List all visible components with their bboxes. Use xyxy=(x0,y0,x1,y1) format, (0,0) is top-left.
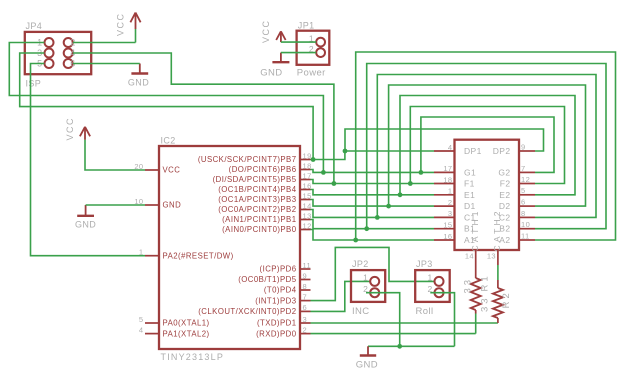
junction PB0/A loop tap xyxy=(353,238,358,243)
wire loop net D2 (tap to display pin) xyxy=(389,85,586,206)
resistor R2 (33) xyxy=(493,288,503,318)
resistor R1 (33) xyxy=(471,278,481,310)
svg-text:VCC: VCC xyxy=(163,166,181,175)
svg-text:TINY2313LP: TINY2313LP xyxy=(161,352,225,362)
wire loop net A2 (tap to display pin) xyxy=(356,52,616,240)
display DIS1 left pins (segment 1) xyxy=(434,143,482,245)
wire loop net E2 (tap to display pin) xyxy=(400,96,575,195)
ground symbol GND (IC2 pin10) xyxy=(75,205,96,230)
svg-text:18: 18 xyxy=(303,161,312,170)
svg-text:G2: G2 xyxy=(498,167,510,177)
svg-text:17: 17 xyxy=(443,164,452,173)
svg-text:10: 10 xyxy=(521,220,530,229)
wire net PB1/B (IC2 to display) xyxy=(311,220,435,229)
svg-text:(OC1B/PCINT4)PB4: (OC1B/PCINT4)PB4 xyxy=(218,185,296,194)
connector JP2 (INC button header) xyxy=(351,259,385,317)
connector JP1 (Power header) xyxy=(297,21,330,79)
junction MOSI/PB5 xyxy=(332,181,337,186)
display DIS1 right pins (segment 2) xyxy=(493,142,535,245)
svg-text:11: 11 xyxy=(521,231,530,240)
wire INT1 net (IC2 pin7 to JP3 pin1) xyxy=(311,247,435,300)
svg-text:15: 15 xyxy=(443,221,452,230)
svg-text:F2: F2 xyxy=(500,179,511,189)
wire loop net G2 (tap to display pin) xyxy=(421,117,554,172)
svg-text:DP1: DP1 xyxy=(464,146,482,156)
svg-text:(TXD)PD1: (TXD)PD1 xyxy=(257,319,297,328)
svg-text:12: 12 xyxy=(303,221,312,230)
wire net PB5/F (IC2 to display) xyxy=(311,180,435,184)
svg-text:CATH2: CATH2 xyxy=(492,208,502,251)
svg-text:VCC: VCC xyxy=(116,12,126,36)
wire JP3 pin2 to GND xyxy=(430,293,454,347)
wire RESET net (JP4 pin5 to IC2 pin1) xyxy=(31,64,146,256)
svg-text:GND: GND xyxy=(260,67,282,78)
svg-text:1: 1 xyxy=(139,248,144,257)
svg-text:(AIN0/PCINT0)PB0: (AIN0/PCINT0)PB0 xyxy=(222,225,297,234)
wire loop net DP2 (tap to display pin) xyxy=(345,129,544,151)
svg-text:7: 7 xyxy=(303,292,308,301)
svg-text:JP2: JP2 xyxy=(352,259,369,269)
wire net PB0/A (IC2 to display) xyxy=(311,230,435,241)
wire loop net B2 (tap to display pin) xyxy=(367,64,606,229)
wire SCK net (JP4 pin3 to PB7) xyxy=(20,53,313,160)
svg-text:VCC: VCC xyxy=(261,19,271,43)
svg-text:GND: GND xyxy=(356,359,378,370)
svg-text:33: 33 xyxy=(462,277,473,294)
svg-text:19: 19 xyxy=(303,151,312,160)
svg-text:PA1(XTAL2): PA1(XTAL2) xyxy=(163,329,210,338)
junction JP2 GND xyxy=(397,344,402,349)
svg-text:(OC0A/PCINT2)PB2: (OC0A/PCINT2)PB2 xyxy=(218,205,296,214)
junction PB2/C loop tap xyxy=(375,215,380,220)
junction PB4/E loop tap xyxy=(398,192,403,197)
svg-text:13: 13 xyxy=(303,211,312,220)
svg-text:1: 1 xyxy=(363,273,368,283)
svg-text:IC2: IC2 xyxy=(161,136,176,146)
wire TXD net (IC2 pin3 to R2) xyxy=(311,322,498,324)
svg-text:(OC1A/PCINT3)PB3: (OC1A/PCINT3)PB3 xyxy=(218,195,296,204)
wire INT0 net (IC2 pin6 to JP2 pin1) xyxy=(311,281,371,311)
wire loop net C2 (tap to display pin) xyxy=(377,75,596,218)
svg-text:3: 3 xyxy=(448,209,453,218)
svg-text:17: 17 xyxy=(303,171,312,180)
svg-text:(DO/PCINT6)PB6: (DO/PCINT6)PB6 xyxy=(229,165,297,174)
svg-text:33: 33 xyxy=(480,295,491,312)
svg-text:Roll: Roll xyxy=(416,306,434,317)
junction PB1/B loop tap xyxy=(364,226,369,231)
display DIS1 dual 7-segment body xyxy=(455,140,520,250)
svg-text:G1: G1 xyxy=(464,167,476,177)
svg-text:(INT1)PD3: (INT1)PD3 xyxy=(255,296,296,305)
svg-text:PA2(#RESET/DW): PA2(#RESET/DW) xyxy=(163,251,234,260)
ic U: IC2 TINY2313LP body xyxy=(159,146,300,349)
wire R2 to TXD net xyxy=(497,318,499,323)
power symbol VCC (IC2 pin20) xyxy=(65,117,90,141)
ic IC2 right pins PD6-PD0 (11,9,8,7,6,3,2) xyxy=(198,261,311,339)
svg-text:GND: GND xyxy=(75,220,96,230)
ground symbol GND (JP1 pin2) xyxy=(260,53,289,79)
svg-text:9: 9 xyxy=(303,271,308,280)
svg-text:18: 18 xyxy=(443,175,452,184)
svg-text:(AIN1/PCINT1)PB1: (AIN1/PCINT1)PB1 xyxy=(222,215,296,224)
svg-text:7: 7 xyxy=(521,164,526,173)
svg-text:5: 5 xyxy=(139,315,144,324)
svg-text:(OC0B/T1)PD5: (OC0B/T1)PD5 xyxy=(238,275,296,284)
svg-text:JP4: JP4 xyxy=(26,21,43,31)
svg-text:E2: E2 xyxy=(499,190,510,200)
junction PB5/F loop tap xyxy=(408,181,413,186)
wire net PB2/C (IC2 to display) xyxy=(311,210,435,218)
svg-text:PA0(XTAL1): PA0(XTAL1) xyxy=(163,319,210,328)
svg-text:R1: R1 xyxy=(480,273,491,291)
wire display pin13 to R2 xyxy=(497,265,499,280)
ground symbol GND (bottom) xyxy=(356,346,378,370)
svg-text:(T0)PD4: (T0)PD4 xyxy=(264,286,297,295)
wire net PB7/DP (IC2 to display) xyxy=(311,151,435,160)
svg-text:JP3: JP3 xyxy=(416,259,433,269)
svg-text:E1: E1 xyxy=(464,190,475,200)
svg-text:(RXD)PD0: (RXD)PD0 xyxy=(256,329,297,338)
svg-text:15: 15 xyxy=(303,191,312,200)
svg-text:14: 14 xyxy=(465,252,474,261)
ground symbol GND (JP4 pin6) xyxy=(128,64,149,88)
svg-text:4: 4 xyxy=(448,143,453,152)
wire VCC stem (JP4) xyxy=(135,29,137,43)
ic IC2 right pins PB7-PB0 (19-12) xyxy=(198,151,312,234)
wire JP4 pin6 to GND xyxy=(73,63,140,65)
svg-text:(ICP)PD6: (ICP)PD6 xyxy=(260,265,297,274)
junction SCK/PB7 xyxy=(311,157,316,162)
junction PB6/G loop tap xyxy=(419,170,424,175)
svg-text:DP2: DP2 xyxy=(493,146,511,156)
svg-text:13: 13 xyxy=(487,252,496,261)
wire MOSI net (JP4 pin4 to PB5) xyxy=(73,53,334,184)
power symbol VCC (JP4) xyxy=(116,12,141,36)
wire VCC to IC2 pin20 xyxy=(85,140,145,170)
junction PB3/D loop tap xyxy=(386,204,391,209)
svg-text:1: 1 xyxy=(427,273,432,283)
svg-text:5: 5 xyxy=(521,186,526,195)
svg-text:ISP: ISP xyxy=(26,79,42,89)
svg-text:16: 16 xyxy=(443,232,452,241)
svg-text:12: 12 xyxy=(521,175,530,184)
wire R1 to RXD net xyxy=(475,310,477,314)
svg-text:3: 3 xyxy=(303,315,308,324)
svg-text:1: 1 xyxy=(448,187,453,196)
wire GND bus (bottom) xyxy=(368,345,455,347)
wire JP1 pin2 to GND xyxy=(281,52,316,54)
svg-text:GND: GND xyxy=(128,78,149,88)
wire JP4 pin2 to VCC xyxy=(73,42,136,44)
svg-text:JP1: JP1 xyxy=(298,21,315,31)
svg-text:GND: GND xyxy=(163,201,182,210)
svg-text:8: 8 xyxy=(303,282,308,291)
svg-text:14: 14 xyxy=(303,201,312,210)
junction MISO/PB6 xyxy=(321,170,326,175)
svg-text:F1: F1 xyxy=(464,179,475,189)
svg-text:16: 16 xyxy=(303,181,312,190)
svg-text:2: 2 xyxy=(448,198,453,207)
wire net PB6/G (IC2 to display) xyxy=(311,170,435,173)
svg-text:9: 9 xyxy=(521,142,526,151)
connector JP3 (Roll button header) xyxy=(415,259,450,317)
svg-text:(CLKOUT/XCK/INT0)PD2: (CLKOUT/XCK/INT0)PD2 xyxy=(198,307,296,316)
svg-text:INC: INC xyxy=(352,306,370,317)
wire net PB3/D (IC2 to display) xyxy=(311,200,435,207)
wire loop net F2 (tap to display pin) xyxy=(410,107,564,184)
svg-text:6: 6 xyxy=(521,198,526,207)
wire GND to IC2 pin10 xyxy=(86,204,145,206)
wire JP1 pin1 to VCC xyxy=(281,41,316,43)
display DIS1 bottom pins 14 and 13 (cathodes) xyxy=(465,250,498,265)
svg-text:(USCK/SCK/PCINT7)PB7: (USCK/SCK/PCINT7)PB7 xyxy=(198,155,297,164)
svg-text:(DI/SDA/PCINT5)PB5: (DI/SDA/PCINT5)PB5 xyxy=(213,175,297,184)
wire MISO net (JP4 pin1 to PB6) xyxy=(9,43,323,173)
svg-text:VCC: VCC xyxy=(65,117,75,141)
svg-text:R2: R2 xyxy=(501,290,512,308)
svg-text:CATH1: CATH1 xyxy=(470,208,480,251)
ic IC2 left pins (20 VCC, 10 GND, 1 PA2, 5 PA0, 4 PA1) xyxy=(134,162,233,338)
junction PB7/DP loop tap xyxy=(343,149,348,154)
svg-text:Power: Power xyxy=(297,67,326,78)
svg-text:2: 2 xyxy=(303,325,308,334)
svg-text:4: 4 xyxy=(139,325,144,334)
wire display pin14 to R1 xyxy=(475,258,477,278)
wire net PB4/E (IC2 to display) xyxy=(311,190,435,195)
svg-text:11: 11 xyxy=(303,261,312,270)
svg-text:8: 8 xyxy=(521,209,526,218)
svg-text:6: 6 xyxy=(303,303,308,312)
connector JP4 (ISP header) xyxy=(25,21,91,89)
wire RXD net (IC2 pin2 to R1) xyxy=(311,333,476,335)
wire JP2 pin2 to GND xyxy=(366,293,400,347)
power symbol VCC (JP1) xyxy=(261,19,286,43)
